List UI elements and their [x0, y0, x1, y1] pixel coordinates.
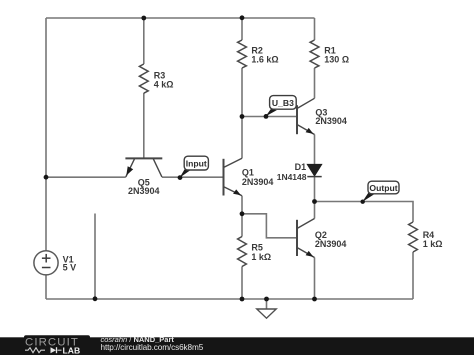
- svg-text:130 Ω: 130 Ω: [324, 55, 349, 65]
- svg-text:2N3904: 2N3904: [128, 186, 160, 196]
- svg-text:2N3904: 2N3904: [242, 177, 274, 187]
- svg-text:Output: Output: [369, 183, 397, 193]
- svg-text:2N3904: 2N3904: [315, 239, 347, 249]
- svg-text:1N4148: 1N4148: [277, 172, 307, 182]
- svg-text:1 kΩ: 1 kΩ: [423, 239, 443, 249]
- svg-text:4 kΩ: 4 kΩ: [154, 80, 174, 90]
- svg-text:http://circuitlab.com/cs6k8m5: http://circuitlab.com/cs6k8m5: [101, 343, 204, 352]
- svg-text:Input: Input: [186, 158, 207, 168]
- svg-text:1 kΩ: 1 kΩ: [251, 252, 271, 262]
- svg-text:LAB: LAB: [63, 345, 81, 355]
- svg-text:1.6 kΩ: 1.6 kΩ: [251, 55, 278, 65]
- svg-text:5 V: 5 V: [63, 263, 77, 273]
- svg-text:2N3904: 2N3904: [315, 116, 347, 126]
- svg-text:D1: D1: [295, 162, 307, 172]
- svg-text:U_B3: U_B3: [272, 98, 294, 108]
